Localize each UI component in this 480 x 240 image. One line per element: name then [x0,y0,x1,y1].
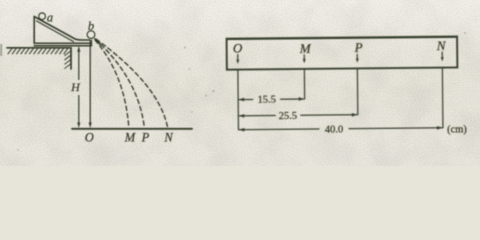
O extension line [237,70,240,130]
paper background [0,0,480,166]
svg-text:P: P [141,130,150,144]
scan specks [0,32,466,151]
dimension line 25.5 [239,115,275,117]
right figure [227,36,468,137]
svg-text:N: N [163,130,173,144]
trajectory to N (dashed) [96,39,168,127]
svg-text:M: M [124,130,136,144]
svg-text:25.5: 25.5 [279,111,297,122]
table top hatching [8,48,68,54]
plank top line [34,42,91,44]
incline hypotenuse inner [36,21,73,42]
svg-text:O: O [85,130,94,144]
arrow under O [237,54,239,60]
svg-text:O: O [233,40,243,55]
dimension line 15.5 [239,98,252,100]
svg-text:H: H [70,80,81,94]
arrow under N [441,52,443,58]
svg-text:(cm): (cm) [447,124,467,135]
table right edge [70,48,72,69]
incline left edge [33,17,35,44]
svg-text:b: b [88,19,94,33]
svg-text:a: a [47,10,53,24]
arrow under M [303,55,305,60]
trajectory to P (dashed) [96,40,145,128]
plank bottom line [34,45,91,47]
arrow under P [356,54,358,59]
svg-text:P: P [354,40,363,55]
ball b [87,31,95,39]
left figure labels [47,10,173,144]
M extension line [303,69,305,99]
strip rectangle top edge emphasis [227,37,456,39]
strip rectangle [227,36,458,69]
H dimension line [78,48,80,80]
table edge hatching [65,51,71,68]
drop line from b to O [89,41,91,123]
svg-text:15.5: 15.5 [257,95,275,106]
svg-text:M: M [299,41,312,56]
P extension line [356,68,358,114]
N extension line [441,68,444,128]
incline hypotenuse outer [34,17,89,41]
ground line (left figure) [72,128,192,130]
svg-text:40.0: 40.0 [325,124,343,135]
plank right cap [91,40,93,46]
svg-text:N: N [436,38,447,53]
trajectory to M (dashed) [95,40,129,127]
table top ground line [7,47,71,49]
dimension line 40.0 [239,128,318,131]
velocity arrow at b [95,39,100,44]
ball a [39,13,46,20]
